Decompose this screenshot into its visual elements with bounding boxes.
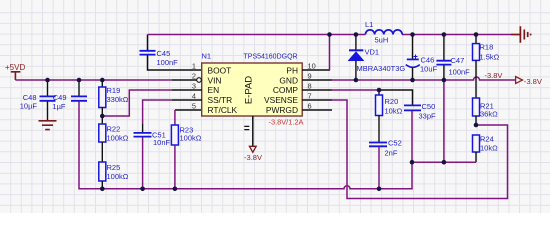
wire C49 down to bottom net [78, 102, 81, 189]
power port -3.8V (right) [516, 77, 543, 86]
svg-text:10uF: 10uF [420, 65, 438, 74]
diode VD1 [348, 35, 405, 81]
svg-text:-3.8V: -3.8V [485, 71, 503, 80]
svg-text:RT/CLK: RT/CLK [208, 105, 238, 115]
wire RT/CLK to R23 [175, 109, 202, 111]
svg-text:COMP: COMP [273, 85, 299, 95]
power port -3.8V (below E-PAD) [244, 146, 262, 162]
svg-text:GND: GND [279, 75, 298, 85]
pin 11 E-PAD marks [244, 126, 249, 129]
svg-text:R22: R22 [107, 125, 121, 134]
resistor R18 [473, 35, 500, 99]
svg-text:100kΩ: 100kΩ [180, 134, 202, 143]
svg-text:330kΩ: 330kΩ [107, 95, 129, 104]
bottom -3.8V net wire (with hop at x=347) [79, 162, 412, 189]
ground (right, bar style) [511, 26, 531, 42]
svg-text:33pF: 33pF [419, 112, 437, 121]
wire VSENSE pin 7 feedback loop [332, 100, 508, 199]
resistor R23 [171, 125, 201, 145]
svg-text:1.5kΩ: 1.5kΩ [480, 53, 500, 62]
wire R23 bottom to bottom net [174, 145, 176, 189]
capacitor C49 [52, 80, 87, 111]
resistor R24 [473, 135, 499, 163]
svg-text:10: 10 [308, 62, 316, 71]
svg-text:VIN: VIN [208, 75, 222, 85]
wire C45 top to PH rail [147, 35, 149, 51]
svg-text:TPS54160DGQR: TPS54160DGQR [244, 54, 298, 61]
power port +5VD [5, 63, 25, 80]
svg-text:MBRA340T3G: MBRA340T3G [357, 64, 406, 73]
svg-text:5: 5 [192, 102, 196, 111]
svg-text:10nF: 10nF [153, 138, 171, 147]
capacitor C47 [436, 35, 470, 81]
capacitor C45 [140, 49, 179, 67]
resistor R25 [99, 162, 129, 189]
svg-text:2: 2 [192, 72, 196, 81]
svg-text:100nF: 100nF [449, 68, 471, 77]
wire EN net: R19/R22 junction to EN pin [102, 90, 172, 116]
pin 3 EN black segment [172, 89, 202, 91]
wire SS/TR to C51 [143, 100, 172, 124]
resistor R21 [473, 98, 499, 125]
resistor R20 [376, 90, 403, 142]
ground (earth) under C48 [39, 121, 57, 130]
wire +5VD rail to VIN [15, 79, 172, 81]
svg-text:L1: L1 [365, 20, 373, 29]
svg-text:2nF: 2nF [385, 148, 398, 157]
svg-text:10kΩ: 10kΩ [480, 144, 498, 153]
svg-text:R19: R19 [107, 86, 121, 95]
svg-text:6: 6 [308, 102, 312, 111]
svg-text:+5VD: +5VD [5, 63, 25, 72]
svg-text:7: 7 [308, 92, 312, 101]
svg-text:C52: C52 [388, 138, 402, 147]
wire GND pin 9 net (with hop over R18/R21 lead) [332, 77, 515, 80]
svg-text:R18: R18 [480, 43, 494, 52]
inductor L1 [365, 20, 402, 45]
wire GND line down at x=444 [443, 80, 445, 162]
svg-text:R24: R24 [480, 135, 494, 144]
wire COMP pin 8 [332, 89, 379, 91]
resistor R19 [99, 80, 129, 124]
svg-text:3: 3 [192, 82, 196, 91]
svg-text:PH: PH [286, 65, 298, 75]
resistor R22 [99, 124, 129, 162]
svg-text:VSENSE: VSENSE [264, 95, 298, 105]
svg-text:100kΩ: 100kΩ [107, 172, 129, 181]
wire -3.8V mid net y=162 [412, 161, 476, 163]
wire top rail: PH node / output to ground [148, 34, 512, 36]
svg-text:10µF: 10µF [20, 102, 38, 111]
svg-text:VD1: VD1 [365, 48, 380, 57]
capacitor C52 [369, 138, 402, 189]
svg-text:1: 1 [192, 62, 196, 71]
svg-text:-3.8V: -3.8V [244, 153, 262, 162]
svg-text:C50: C50 [422, 102, 436, 111]
svg-text:9: 9 [308, 72, 312, 81]
IC N1 TPS54160DGQR [192, 52, 316, 127]
svg-text:36kΩ: 36kΩ [480, 110, 498, 119]
svg-text:PWRGD: PWRGD [266, 105, 298, 115]
svg-text:BOOT: BOOT [208, 65, 232, 75]
svg-text:R20: R20 [385, 97, 399, 106]
svg-text:EN: EN [208, 85, 220, 95]
svg-text:100nF: 100nF [157, 58, 179, 67]
right side pins 10..6 [302, 70, 332, 110]
svg-text:-3.8V/1.2A: -3.8V/1.2A [269, 117, 304, 126]
svg-text:-3.8V: -3.8V [524, 77, 543, 86]
svg-text:C45: C45 [157, 49, 171, 58]
pin 4 SS/TR black segment [172, 99, 202, 101]
svg-text:R25: R25 [107, 163, 121, 172]
svg-text:N1: N1 [202, 52, 212, 61]
svg-text:100kΩ: 100kΩ [107, 134, 129, 143]
wire C51 bottom to bottom net [142, 137, 144, 189]
svg-text:E-PAD: E-PAD [244, 76, 255, 104]
svg-text:C47: C47 [451, 56, 465, 65]
capacitor C48 [20, 80, 56, 121]
pin 2 VIN black pin with bubble [172, 79, 197, 81]
capacitor C46 (polarized) [406, 35, 438, 81]
svg-text:4: 4 [192, 92, 196, 101]
svg-text:C49: C49 [53, 93, 67, 102]
svg-text:1µF: 1µF [52, 102, 65, 111]
wire PH pin up to rail [329, 35, 331, 71]
capacitor C50 [404, 102, 436, 162]
svg-text:8: 8 [308, 82, 312, 91]
svg-text:10kΩ: 10kΩ [385, 107, 403, 116]
svg-text:5uH: 5uH [375, 36, 389, 45]
wire C45 bottom to BOOT pin 1 [148, 55, 203, 70]
capacitor C51 [134, 124, 171, 147]
svg-text:SS/TR: SS/TR [208, 95, 233, 105]
wire E-PAD down [252, 116, 254, 146]
svg-text:C46: C46 [421, 55, 435, 64]
